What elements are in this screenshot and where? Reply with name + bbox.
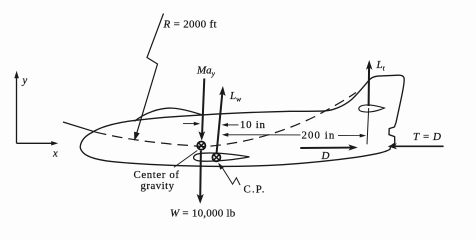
force arrow L_t (up): [366, 60, 372, 106]
canopy hump: [135, 108, 203, 121]
dashed flight path arc: [63, 93, 356, 147]
svg-text:C.P.: C.P.: [244, 184, 266, 196]
y axis: [14, 71, 19, 144]
center of gravity symbol (circle-X): [197, 142, 205, 150]
svg-text:200 in: 200 in: [302, 130, 336, 142]
x axis: [17, 141, 59, 145]
force arrow D (right): [300, 144, 358, 150]
svg-text:W = 10,000 lb: W = 10,000 lb: [170, 207, 236, 219]
force arrow Ma_y (down): [198, 79, 205, 141]
force arrow W (down): [197, 151, 204, 204]
force arrow T = D (left): [388, 143, 444, 149]
svg-text:10 in: 10 in: [240, 119, 266, 131]
dimension 200 in: [222, 133, 366, 138]
svg-text:y: y: [22, 76, 28, 87]
leader line center of gravity: [174, 151, 197, 168]
dimension 10 in: [183, 122, 239, 127]
svg-text:R = 2000 ft: R = 2000 ft: [163, 19, 217, 31]
svg-text:gravity: gravity: [141, 180, 175, 192]
svg-text:D: D: [321, 150, 330, 162]
leader arrow C.P.: [218, 163, 240, 186]
fuselage outline with tail fin: [80, 75, 404, 166]
center of pressure symbol (circle-X): [212, 153, 220, 161]
svg-text:x: x: [52, 149, 58, 160]
svg-text:T = D: T = D: [413, 131, 442, 143]
zigzag leader arrow R: [134, 14, 163, 142]
wing airfoil section: [194, 153, 250, 161]
horizontal stabilizer airfoil: [359, 105, 385, 112]
tail reference line: [367, 108, 369, 144]
force arrow L_w (up): [217, 86, 226, 153]
